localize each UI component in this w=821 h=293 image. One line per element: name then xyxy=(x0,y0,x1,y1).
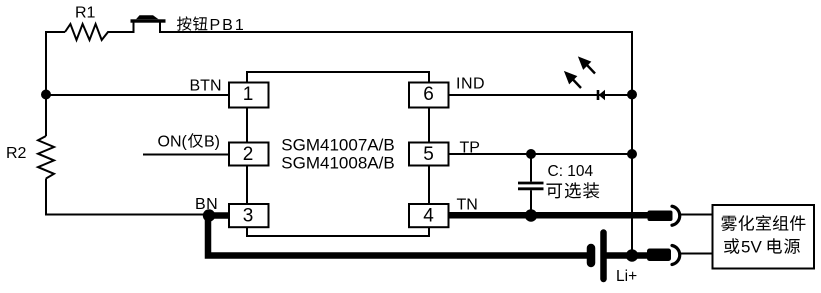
svg-text:B): B) xyxy=(204,134,220,151)
svg-text:5: 5 xyxy=(423,144,434,165)
svg-text:SGM41007A/B: SGM41007A/B xyxy=(281,136,394,155)
svg-text:TN: TN xyxy=(457,197,478,214)
svg-text:1: 1 xyxy=(243,84,254,105)
svg-text:6: 6 xyxy=(423,84,434,105)
svg-text:PB1: PB1 xyxy=(210,17,246,34)
svg-text:4: 4 xyxy=(423,206,434,227)
svg-text:BN: BN xyxy=(195,196,218,213)
svg-text:BTN: BTN xyxy=(190,78,222,95)
svg-text:3: 3 xyxy=(243,206,254,227)
svg-text:SGM41008A/B: SGM41008A/B xyxy=(281,154,394,173)
svg-text:IND: IND xyxy=(456,76,485,93)
svg-text:5V: 5V xyxy=(741,238,762,257)
svg-text:2: 2 xyxy=(243,144,254,165)
svg-text:C: 104: C: 104 xyxy=(548,163,594,180)
svg-text:TP: TP xyxy=(460,140,480,157)
svg-text:R1: R1 xyxy=(75,5,96,22)
svg-text:ON(: ON( xyxy=(158,134,188,151)
svg-text:Li+: Li+ xyxy=(616,268,637,285)
svg-text:R2: R2 xyxy=(6,145,27,162)
